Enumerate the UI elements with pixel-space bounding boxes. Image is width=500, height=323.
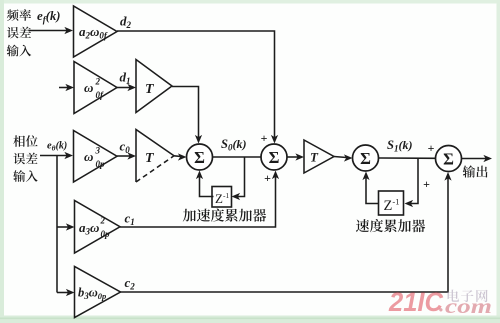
feedback branch to Z1 [237, 157, 245, 197]
amplifier w0p^3 [74, 131, 118, 183]
wire Z1 out up into sigma1 [200, 176, 214, 197]
wire d1 [117, 87, 130, 89]
svg-text:T: T [145, 151, 155, 166]
svg-text:Σ: Σ [360, 149, 371, 168]
svg-text:ef(k): ef(k) [37, 8, 60, 25]
watermark dianziwang [448, 290, 488, 303]
wire: e_theta input [40, 155, 67, 157]
svg-text:+: + [261, 131, 268, 145]
delay Z^-1 (velocity) [379, 191, 404, 215]
delay Z^-1 (acceleration) [212, 187, 232, 208]
gain T row3 (dashed bottom) [136, 130, 174, 183]
svg-text:Σ: Σ [269, 148, 280, 167]
svg-text:S1(k): S1(k) [387, 138, 412, 154]
input arrow row4 [57, 226, 68, 228]
svg-text:Σ: Σ [194, 148, 205, 167]
svg-text:T: T [310, 150, 319, 165]
svg-text:3: 3 [95, 146, 101, 156]
svg-text:.: . [439, 293, 444, 317]
branch down for phase input [56, 156, 58, 293]
wire T3 out [174, 155, 181, 158]
feedback branch to Z2 [410, 158, 418, 204]
svg-text:0p: 0p [101, 229, 111, 239]
summer: velocity accumulator [353, 145, 379, 171]
svg-text:+: + [423, 177, 430, 191]
amplifier w0f^2 [74, 62, 117, 114]
svg-text:2: 2 [95, 77, 101, 87]
amplifier a3*w0p^2 [75, 201, 121, 254]
wire: input arrow row2 [59, 87, 68, 89]
wire c1 [120, 176, 276, 227]
svg-text:S0(k): S0(k) [221, 137, 246, 153]
summer: output [436, 146, 462, 172]
svg-text:ω: ω [84, 149, 93, 164]
watermark 21IC [388, 287, 443, 317]
label acceleration accumulator [183, 209, 266, 222]
svg-text:0f: 0f [96, 90, 105, 100]
label velocity accumulator [356, 219, 425, 232]
wire output [462, 158, 487, 160]
wire S1 [379, 157, 436, 159]
svg-text:a3ω: a3ω [79, 220, 99, 237]
wire sigma2 to T [287, 156, 298, 158]
wire Z2 out up into sigma3 [366, 177, 379, 204]
label: phase error input [13, 135, 37, 147]
wire S0 [213, 156, 262, 158]
svg-text:0p: 0p [96, 159, 106, 169]
svg-text:com: com [445, 296, 492, 318]
gain T right [304, 140, 334, 173]
amplifier a2*w0f [74, 6, 118, 57]
svg-text:eθ(k): eθ(k) [47, 141, 67, 153]
label output [463, 165, 488, 177]
svg-text:2: 2 [100, 216, 106, 226]
watermark .com [439, 293, 492, 319]
wire d2 [117, 31, 275, 138]
wire T2 out [172, 87, 199, 139]
amplifier b3*w0p [75, 267, 121, 318]
summer: acceleration accumulator [187, 144, 213, 170]
svg-text:21IC: 21IC [388, 287, 443, 317]
svg-text:Σ: Σ [443, 149, 454, 168]
wire c2 [121, 178, 449, 293]
input arrow row5 [57, 292, 68, 294]
label: frequency error input [7, 9, 31, 21]
svg-text:+: + [264, 171, 271, 185]
wire c0 [117, 155, 130, 157]
svg-text:+: + [428, 141, 435, 155]
wire T to sigma3 [334, 157, 347, 158]
gain T row2 [136, 60, 172, 113]
summer 2 [261, 144, 287, 170]
svg-text:ω: ω [84, 80, 93, 95]
svg-text:T: T [145, 82, 155, 97]
wire: e_f(k) input arrow [29, 30, 68, 32]
